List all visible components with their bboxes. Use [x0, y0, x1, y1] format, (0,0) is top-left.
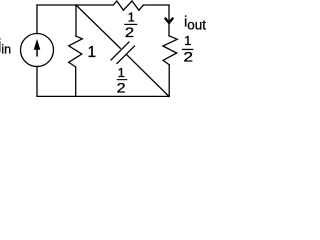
capacitor C1 plate 1 [111, 42, 129, 60]
resistor R3 1/2 (right) [163, 36, 177, 65]
wire diagonal upper [76, 5, 120, 48]
fraction bar top [124, 24, 137, 25]
wire right top [168, 5, 170, 36]
wire bottom [37, 95, 169, 97]
fraction bar C1 [117, 79, 128, 80]
svg-text:2: 2 [125, 24, 135, 40]
svg-text:1: 1 [184, 33, 191, 48]
current source arrow [34, 39, 41, 57]
svg-text:2: 2 [117, 80, 126, 96]
svg-text:1: 1 [87, 44, 96, 61]
svg-text:1: 1 [128, 9, 135, 24]
wire top right [143, 4, 169, 6]
svg-text:1: 1 [118, 65, 125, 80]
wire left top [36, 5, 38, 34]
wire diagonal lower [127, 55, 169, 97]
resistor R2 1/2 (top) [113, 1, 143, 10]
resistor R1 1 [69, 36, 83, 67]
wire top [37, 4, 113, 6]
svg-text:2: 2 [183, 49, 193, 64]
current source U1 circle [21, 34, 54, 67]
iout arrow [165, 18, 173, 23]
svg-text:out: out [187, 17, 206, 32]
fraction bar R3 [182, 49, 193, 50]
svg-text:in: in [1, 42, 11, 56]
wire left bottom [36, 67, 38, 97]
wire branch2 bottom [75, 67, 77, 97]
wire right bottom [168, 65, 170, 97]
wire branch2 top [75, 5, 77, 36]
capacitor C1 plate 2 [117, 46, 135, 64]
